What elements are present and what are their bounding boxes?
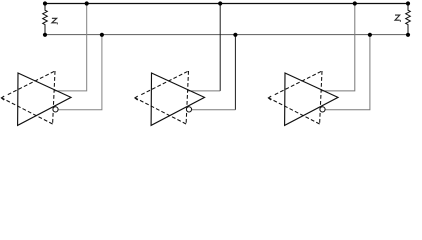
wire U2 to bus B horizontal xyxy=(192,109,236,111)
arrowhead receiver U1 xyxy=(1,96,4,100)
junction dot U3 on bus B xyxy=(368,33,372,37)
junction dot U2 on bus A xyxy=(218,1,222,5)
transceiver U3 xyxy=(268,1,372,125)
wire U1 to bus A xyxy=(54,4,87,91)
driver triangle U2 (solid) xyxy=(151,73,204,125)
label ZL right xyxy=(395,15,400,22)
wire U1 to bus B xyxy=(58,35,102,110)
transceiver U2 xyxy=(135,1,238,125)
wire U2 to bus B vertical xyxy=(234,35,236,110)
wire U3 to bus A xyxy=(321,4,355,91)
receiver triangle U2 (dashed) xyxy=(135,71,189,124)
label ZL left xyxy=(52,18,57,24)
wire U2 to bus A vertical xyxy=(219,4,221,91)
wire U2 to bus A horizontal xyxy=(188,90,221,92)
junction dot U3 on bus A xyxy=(353,1,357,5)
bubble U1 xyxy=(53,107,58,112)
junction dot resistor ZL right pin 2 xyxy=(406,33,410,37)
driver triangle U3 (solid) xyxy=(285,73,338,125)
junction dot resistor ZL right pin 1 xyxy=(406,1,410,5)
resistor ZL left xyxy=(43,4,48,35)
arrowhead receiver U2 xyxy=(135,96,138,100)
receiver triangle U1 (dashed) xyxy=(2,71,56,124)
wire U3 to bus B xyxy=(325,35,370,110)
junction dot U1 on bus B xyxy=(100,33,104,37)
junction dot resistor ZL left pin 1 xyxy=(43,1,47,5)
junction dot U2 on bus B xyxy=(233,33,237,37)
bubble U3 xyxy=(320,107,325,112)
junction dot resistor ZL left pin 2 xyxy=(43,33,47,37)
bus wire B (second line) xyxy=(45,34,408,36)
driver triangle U1 (solid) xyxy=(18,73,71,125)
bubble U2 xyxy=(186,107,191,112)
resistor ZL right xyxy=(406,4,411,35)
bus wire A (top line) xyxy=(45,3,408,5)
transceiver U1 xyxy=(1,1,104,125)
receiver triangle U3 (dashed) xyxy=(269,71,323,124)
junction dot U1 on bus A xyxy=(85,1,89,5)
arrowhead receiver U3 xyxy=(268,96,271,100)
